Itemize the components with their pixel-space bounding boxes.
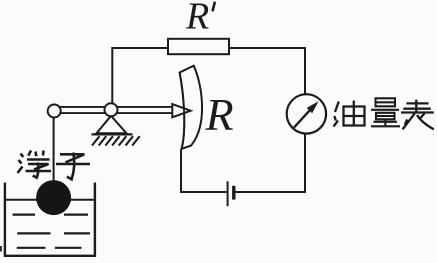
浮 lower zi part	[26, 163, 52, 178]
meter needle arrowhead	[307, 101, 319, 113]
svg-text:R: R	[205, 89, 234, 140]
wiper arrow of rheostat	[172, 104, 190, 117]
wire: left vertical drop from top wire to fulcrum	[111, 47, 113, 104]
浮 top claw	[27, 151, 50, 160]
量 bottom li	[371, 113, 400, 127]
表 top strokes	[401, 100, 434, 113]
battery B1: short thick plate	[232, 186, 235, 200]
scan speck at left edge	[0, 246, 2, 252]
rheostat R curved body (crescent)	[180, 66, 202, 149]
量 top sun	[371, 98, 399, 110]
wire: bottom rail left segment (rheostat bottom to battery)	[181, 191, 226, 193]
liquid dashes row 3	[17, 247, 82, 249]
wire: resistor R' right terminal to top-right corner	[229, 47, 305, 49]
wire: bottom rail right segment (battery to right corner)	[235, 191, 306, 193]
resistor R'	[168, 39, 229, 54]
油 water radical	[334, 102, 339, 127]
liquid surface line	[6, 199, 94, 201]
float rod	[53, 117, 55, 184]
wire: top-left corner to resistor R' left terminal	[112, 47, 168, 49]
liquid dashes row 2	[17, 232, 90, 234]
表 bottom yi strokes	[403, 113, 434, 129]
fulcrum support triangle	[97, 116, 127, 134]
ground line under fulcrum	[92, 133, 133, 135]
meter (fuel gauge) U1	[287, 94, 326, 133]
wire: left vertical from crescent bottom to bottom rail	[180, 150, 182, 194]
wire: right vertical drop to meter top	[304, 47, 306, 95]
label 浮子 (float) drawn strokes	[18, 151, 91, 180]
tank walls	[5, 183, 95, 256]
battery B1: long plate	[227, 181, 229, 206]
liquid dashes row 1	[13, 214, 88, 216]
float ball	[36, 180, 71, 215]
label R'	[185, 0, 216, 38]
fulcrum pivot circle	[105, 103, 118, 116]
svg-text:R: R	[185, 0, 209, 38]
油 you component	[344, 101, 365, 126]
meter needle	[294, 108, 312, 128]
wire: meter bottom down to bottom rail	[304, 134, 306, 192]
ground hatching	[92, 136, 140, 145]
label 油量表 (fuel gauge) drawn strokes	[334, 98, 434, 129]
lever arm (double line)	[54, 107, 172, 113]
浮 water radical	[18, 154, 24, 174]
left joint circle on lever	[48, 105, 61, 118]
inner arc of crescent redrawn over arrow	[180, 73, 185, 149]
子	[56, 153, 90, 180]
